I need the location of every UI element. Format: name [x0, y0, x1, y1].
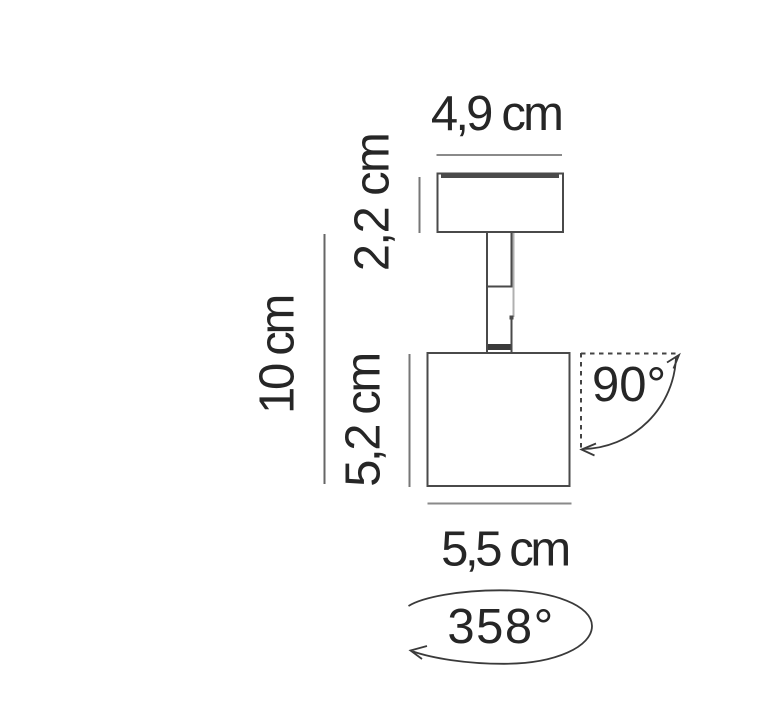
arrowhead bottom of 90° arc [582, 444, 597, 456]
dimension line for 5,2 cm [409, 354, 411, 487]
arrowhead top of 90° arc [667, 355, 679, 369]
358° rotation ellipse [409, 590, 593, 664]
arrowhead of 358° ellipse [411, 646, 428, 659]
svg-text:4,9 cm: 4,9 cm [431, 87, 561, 141]
dashed reference line horizontal (90°) [581, 353, 678, 355]
stem [486, 233, 514, 353]
dimension line for 5,5 cm [428, 503, 572, 505]
dimension line for 4,9 cm [437, 154, 563, 156]
svg-text:2,2 cm: 2,2 cm [346, 134, 400, 271]
svg-text:358°: 358° [447, 600, 554, 654]
svg-text:5,2 cm: 5,2 cm [337, 354, 391, 487]
svg-text:5,5 cm: 5,5 cm [441, 523, 568, 577]
body (lamp head) [428, 353, 570, 486]
90° swing arc [583, 357, 676, 449]
dimension line for 10 cm [324, 234, 326, 484]
canopy (top cylinder) [438, 174, 564, 233]
dimension line for 2,2 cm [419, 177, 421, 233]
svg-text:90°: 90° [592, 358, 666, 412]
svg-text:10 cm: 10 cm [251, 297, 305, 414]
dashed reference line vertical (90°) [580, 353, 582, 448]
